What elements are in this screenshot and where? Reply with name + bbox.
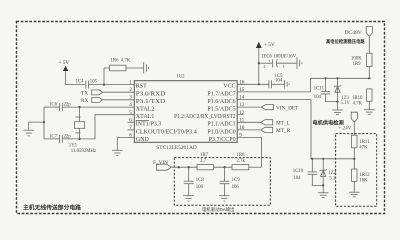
svg-text:+ 24V: + 24V (339, 126, 352, 131)
ground (right-facing) after 1R6 (144, 62, 149, 73)
svg-text:高电位检测稳压电路: 高电位检测稳压电路 (326, 38, 365, 45)
wire to ground (29, 122, 44, 130)
pin 12 P1.2/ADC2/RX_LVD/RST2 (174, 110, 245, 120)
wire pin9 CCP0 down to DA network (237, 138, 261, 168)
wire node up to R6 (103, 68, 105, 85)
svg-text:F_VIN: F_VIN (153, 160, 168, 166)
capacitor 1C6 22p (49, 102, 71, 111)
ground (1EC6, right-facing) (297, 57, 302, 69)
svg-text:MT_L: MT_L (276, 121, 290, 127)
svg-text:104: 104 (314, 95, 322, 100)
svg-text:104: 104 (275, 78, 283, 83)
pin 4 XTAL2 (129, 102, 154, 112)
node RST junction (103, 84, 105, 86)
capacitor 1EC6 100UF/16V (259, 55, 297, 70)
svg-text:2: 2 (129, 87, 132, 93)
node MT_R connector (261, 127, 291, 134)
ground (pin 8) (112, 150, 123, 155)
svg-text:GND: GND (136, 137, 150, 143)
ground (crystal caps) (24, 130, 34, 136)
svg-text:P1.5/ADC5: P1.5/ADC5 (207, 107, 235, 113)
node 1C10/1Z2 ground junction (322, 184, 324, 186)
dashed box 电机供电稳压 (336, 134, 377, 207)
svg-text:104: 104 (293, 176, 301, 181)
wire +5V to RST line (66, 71, 85, 85)
node divider mid junction (311, 158, 355, 160)
wire 1R9 to node (368, 67, 370, 79)
svg-text:TX: TX (81, 90, 88, 96)
svg-text:5.1: 5.1 (329, 176, 336, 181)
svg-text:4.7K: 4.7K (121, 58, 131, 63)
wire pin11 (237, 121, 261, 123)
resistor 1R7 2.7 (197, 153, 232, 170)
svg-text:1C4: 1C4 (76, 79, 85, 84)
pin 1 RST (129, 79, 147, 89)
node zener/cap ground junction (336, 101, 338, 103)
wire pin15 ADC7 to divider node (237, 78, 369, 92)
ground (1Z2/1C10) (318, 193, 329, 198)
svg-text:P1.7/ADC7: P1.7/ADC7 (207, 91, 235, 97)
svg-text:1R8: 1R8 (237, 153, 246, 158)
wire RX to pin3 (103, 99, 135, 101)
ground (1Z1/1C11) (332, 110, 343, 115)
svg-text:1R6: 1R6 (111, 58, 120, 63)
power +5V (right) (256, 42, 275, 48)
node VIN_DET connector (261, 105, 299, 112)
wire to ground (322, 185, 324, 192)
label 电机供电检测 (313, 118, 344, 126)
wire VCC pin16 (237, 83, 268, 85)
svg-text:1C9: 1C9 (232, 178, 241, 183)
svg-text:3: 3 (129, 95, 132, 101)
wire left vertical joining caps (43, 107, 45, 139)
capacitor 1C4 (76, 79, 98, 88)
svg-text:106: 106 (196, 185, 204, 190)
wire 1C4 to RST pin (88, 84, 134, 86)
node +24V connector (339, 112, 358, 131)
pin 6 INT1/P3.3 (128, 117, 162, 127)
svg-text:+ 5V: + 5V (59, 60, 70, 66)
node DC48V connector (345, 27, 373, 37)
ground (1R10) (364, 110, 375, 115)
pin 9 P3.7/CCP0 (209, 133, 242, 143)
svg-text:5: 5 (129, 110, 132, 116)
pin 5 XTAL1 (129, 110, 154, 120)
svg-text:1: 1 (129, 79, 132, 85)
resistor 1R6 4.7K (104, 58, 143, 70)
svg-text:电机供电检测: 电机供电检测 (313, 118, 344, 126)
pin 8 GND (129, 133, 149, 143)
svg-text:1C6: 1C6 (49, 102, 58, 107)
svg-text:106: 106 (232, 185, 240, 190)
svg-text:2.7: 2.7 (200, 159, 207, 164)
resistor 1R9 100K (351, 53, 372, 67)
svg-text:47K: 47K (359, 145, 368, 150)
svg-text:P3.0/RXD: P3.0/RXD (136, 91, 166, 97)
zener 1Z1 5.1V (334, 78, 351, 106)
svg-text:VCC: VCC (223, 84, 235, 90)
svg-text:1R7: 1R7 (200, 153, 209, 158)
node MT_L connector (261, 120, 290, 127)
wire pin8 GND (117, 138, 134, 151)
node F_VIN connector (153, 160, 171, 170)
outer dashed border (17, 22, 385, 214)
svg-text:主机无线传送部分电路: 主机无线传送部分电路 (23, 204, 81, 212)
svg-text:1C10: 1C10 (293, 169, 304, 174)
ground (1R12) (349, 192, 360, 197)
svg-text:P1.2/ADC2/RX_LVD/RST2: P1.2/ADC2/RX_LVD/RST2 (174, 114, 236, 120)
pin 15 P1.7/ADC7 (207, 87, 244, 97)
svg-text:VIN_DET: VIN_DET (276, 105, 299, 111)
pin 14 P1.6/ADC6 (207, 95, 244, 105)
svg-text:10K: 10K (359, 178, 368, 183)
dashed box DA output (174, 158, 270, 206)
node TX connector (81, 90, 103, 97)
wire pin14 ADC6 down to motor sense (237, 100, 354, 159)
capacitor 1C10 104 (293, 159, 323, 186)
svg-text:P1.6/ADC6: P1.6/ADC6 (207, 99, 235, 105)
node 1EC6 junction (258, 62, 260, 64)
svg-text:MT_R: MT_R (276, 128, 291, 134)
wire pin13 (237, 106, 261, 108)
svg-text:CLKOUT0/ECI/T0/P3.4: CLKOUT0/ECI/T0/P3.4 (136, 129, 197, 135)
wire +24V to 1R11 (353, 122, 355, 135)
svg-text:电机驱动DA输出: 电机驱动DA输出 (202, 206, 234, 213)
capacitor 1C7 22p (44, 134, 71, 143)
label 电机驱动DA输出 (202, 206, 234, 213)
wire TX to pin2 (103, 91, 135, 93)
svg-text:11.0592MHz: 11.0592MHz (71, 149, 96, 154)
pin 13 P1.5/ADC5 (207, 102, 244, 112)
pin 3 P3.1/TXD (129, 95, 166, 105)
svg-text:5.1V: 5.1V (341, 101, 351, 106)
capacitor 1C5 104 (269, 74, 284, 88)
svg-text:P1.0/ADC0: P1.0/ADC0 (207, 129, 235, 135)
wire XTAL1 pin5 (63, 115, 135, 139)
svg-text:100UF/16V: 100UF/16V (273, 55, 296, 60)
svg-text:P1.1/ADC1: P1.1/ADC1 (207, 122, 235, 128)
svg-text:RST: RST (136, 84, 147, 90)
svg-text:4.7K: 4.7K (353, 101, 363, 106)
svg-text:+ 5V: + 5V (264, 42, 275, 48)
title 主机无线传送部分电路 (23, 204, 81, 212)
svg-text:1C8: 1C8 (196, 178, 205, 183)
wire F_VIN into box (171, 166, 197, 168)
svg-text:XTAL2: XTAL2 (136, 107, 155, 113)
wire DC48V to 1R9 (368, 36, 370, 53)
wire +5V rail (258, 47, 260, 84)
crystal 1Y1 11.0592MHz (69, 106, 96, 154)
svg-text:4: 4 (129, 102, 132, 108)
svg-text:2.7k: 2.7k (237, 159, 246, 164)
svg-text:22p: 22p (64, 102, 72, 107)
node ground branch junction (43, 121, 45, 123)
ground (1C8) (183, 196, 194, 201)
node divider junctions (324, 77, 370, 79)
svg-text:105: 105 (90, 79, 98, 84)
node cap junctions (188, 166, 226, 168)
svg-text:1EC6: 1EC6 (261, 55, 273, 60)
svg-text:1Y1: 1Y1 (69, 143, 78, 148)
pin 10 P1.0/ADC0 (207, 125, 244, 135)
wire pin10 (237, 129, 261, 131)
svg-text:22p: 22p (64, 134, 72, 139)
svg-text:1U2: 1U2 (176, 74, 185, 79)
op-amp/IC U1U2 box (134, 74, 237, 151)
svg-text:DC48V: DC48V (345, 30, 362, 36)
svg-text:P3.1/TXD: P3.1/TXD (136, 99, 166, 105)
label 高电位检测稳压电路 (326, 38, 365, 45)
resistor 1R11 47K (352, 135, 371, 150)
wire to ground (337, 102, 339, 110)
resistor 1R10 4.7K (352, 89, 372, 110)
node RX connector (81, 98, 103, 105)
capacitor 1C11 104 (314, 78, 338, 101)
node VCC junction (258, 83, 260, 85)
svg-text:P3.7/CCP0: P3.7/CCP0 (209, 137, 236, 143)
svg-text:INT1/P3.3: INT1/P3.3 (136, 122, 162, 128)
pin 16 VCC (223, 79, 245, 89)
capacitor 1C8 106 (184, 167, 205, 195)
svg-text:1C11: 1C11 (314, 87, 325, 92)
resistor 1R8 2.7k (232, 153, 262, 170)
svg-text:STC12LE5201AD: STC12LE5201AD (156, 145, 197, 151)
ground (1C9) (219, 196, 230, 201)
svg-text:1R9: 1R9 (353, 62, 362, 67)
power +5V (left) (59, 60, 70, 71)
svg-text:XTAL1: XTAL1 (136, 114, 155, 120)
wire XTAL2 pin4 (44, 106, 134, 108)
pin 2 P3.0/RXD (129, 87, 166, 97)
capacitor 1C9 106 (220, 167, 241, 195)
pin 11 P1.1/ADC1 (207, 117, 244, 127)
svg-text:1: 1 (283, 64, 285, 69)
ground (1C5, right-facing) (285, 80, 290, 88)
resistor 1R12 10K (352, 169, 371, 192)
pin 7 CLKOUT0/ECI/T0/P3.4 (128, 125, 197, 135)
wire 1R11 to 1R12 (353, 148, 355, 169)
svg-text:2: 2 (263, 64, 265, 69)
zener 1Z2 5.1 (320, 159, 337, 186)
svg-text:RX: RX (81, 98, 89, 104)
